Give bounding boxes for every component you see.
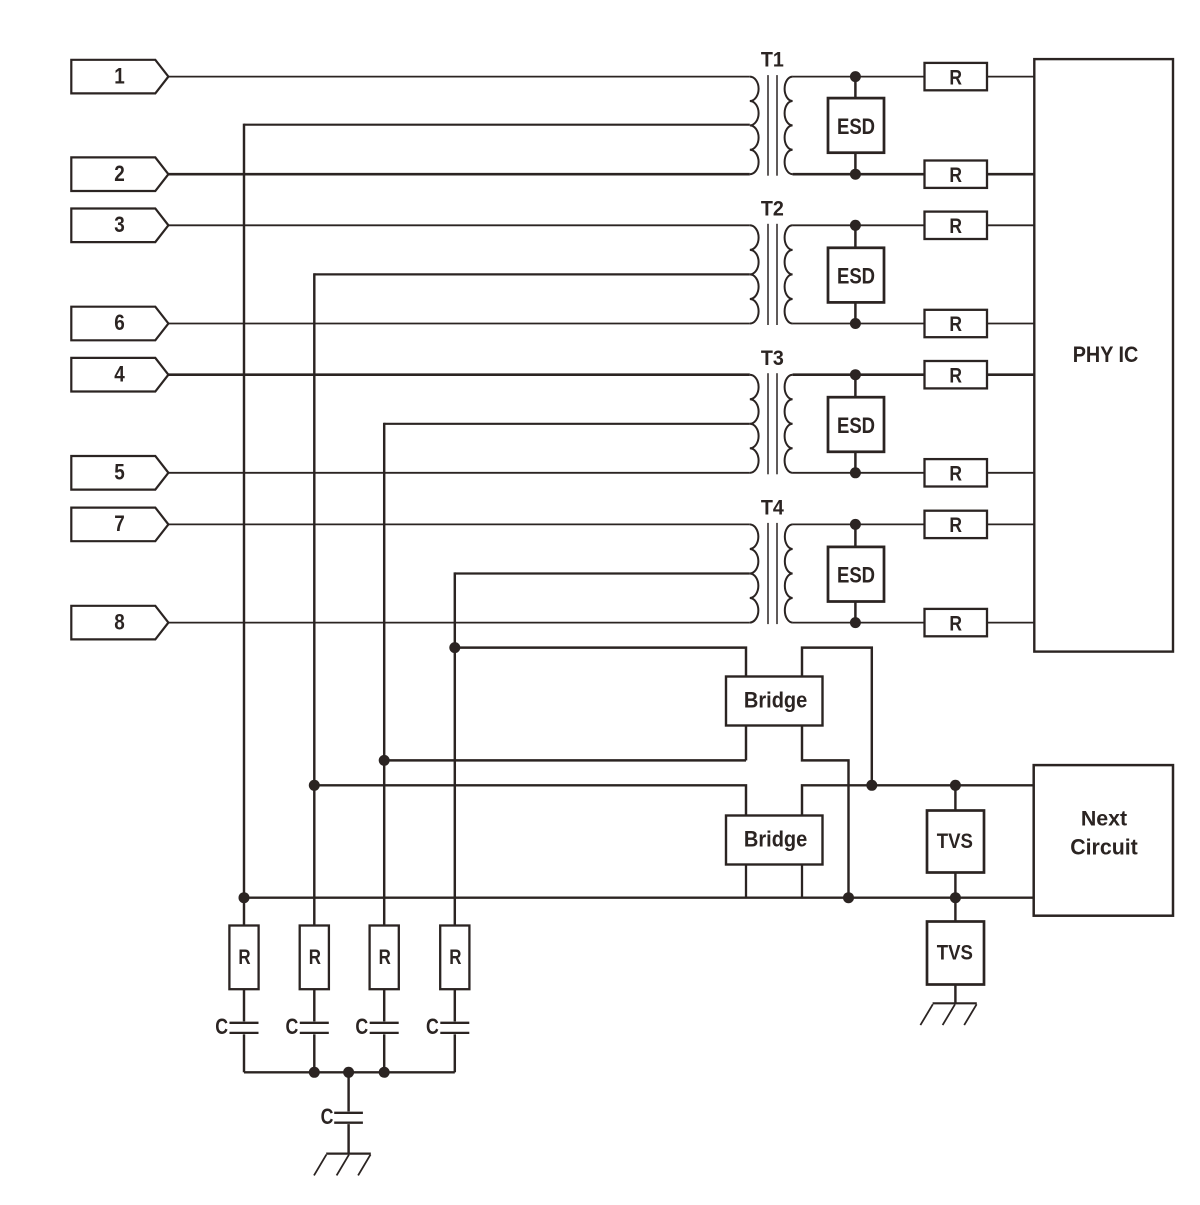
svg-text:Next: Next xyxy=(1081,807,1127,831)
junction dot TVS1 top xyxy=(950,780,961,791)
T4 secondary winding xyxy=(785,524,793,622)
wire pin 2 to transformer xyxy=(168,173,749,176)
svg-text:C: C xyxy=(321,1105,334,1129)
wire R to PHY (y=472.8) xyxy=(987,472,1034,474)
wire pin 4 to transformer xyxy=(168,373,749,376)
junction dot TVS1 bottom / TVS2 top xyxy=(950,892,961,903)
resistor R (series, y=374.7) xyxy=(925,361,988,388)
svg-text:ESD: ESD xyxy=(837,563,875,588)
svg-text:C: C xyxy=(215,1015,228,1039)
junction dot ESD bottom T1 xyxy=(850,169,861,180)
transformer T4 xyxy=(750,496,793,624)
wire pin 8 to transformer xyxy=(168,622,749,624)
wire T4 primary center tap xyxy=(455,572,750,574)
T4 primary winding xyxy=(750,524,759,622)
connector pin 3 xyxy=(71,209,168,243)
Next Circuit block xyxy=(1034,765,1173,916)
connector pin 6 xyxy=(71,307,168,341)
resistor R (termination 1) xyxy=(229,926,258,990)
ground (chassis) bottom xyxy=(314,1154,371,1176)
wire T2 secondary bottom to R xyxy=(793,323,925,325)
connector pin 7 xyxy=(71,508,168,542)
junction dot bus 3 xyxy=(379,1067,390,1078)
wire pin 5 to transformer xyxy=(168,472,749,474)
connector pin 2 xyxy=(71,157,168,191)
connector pin 4 xyxy=(71,358,168,392)
wire pin 7 to transformer xyxy=(168,523,749,525)
wire T3 primary center tap xyxy=(384,423,750,425)
svg-text:ESD: ESD xyxy=(837,264,875,289)
junction dot wire A on center-tap 4 xyxy=(449,642,460,653)
svg-text:R: R xyxy=(379,945,391,970)
TVS diode 1 xyxy=(927,811,984,873)
svg-text:TVS: TVS xyxy=(937,830,973,854)
wire center-tap vertical 4 xyxy=(454,572,456,925)
T4 core xyxy=(767,523,769,624)
svg-text:4: 4 xyxy=(114,362,125,387)
T3 secondary winding xyxy=(785,375,793,473)
connector pin 8 xyxy=(71,606,168,640)
svg-text:Circuit: Circuit xyxy=(1070,834,1138,859)
svg-text:C: C xyxy=(285,1015,298,1039)
bottom bus wire xyxy=(244,1071,455,1073)
wire R4 to C4 xyxy=(454,989,456,1021)
svg-text:2: 2 xyxy=(114,162,125,187)
svg-text:PHY IC: PHY IC xyxy=(1073,343,1139,367)
svg-text:5: 5 xyxy=(114,460,125,485)
svg-text:R: R xyxy=(949,513,962,537)
wire T4 secondary top to R xyxy=(793,523,925,525)
T2 primary winding xyxy=(750,225,759,323)
wire R to PHY (y=225.3) xyxy=(987,224,1034,226)
resistor R (series, y=174.2) xyxy=(925,161,988,188)
resistor R (series, y=622.6) xyxy=(925,609,988,636)
svg-text:C: C xyxy=(355,1015,368,1039)
connector pin 1 xyxy=(71,60,168,94)
Bridge 2 rectifier xyxy=(726,816,823,865)
svg-text:Bridge: Bridge xyxy=(744,827,808,852)
capacitor C (termination 4) xyxy=(426,1015,469,1039)
resistor R (series, y=323.5) xyxy=(925,310,988,337)
wire R to PHY (y=622.6) xyxy=(987,622,1034,624)
T2 core xyxy=(767,224,769,325)
resistor R (series, y=524.4) xyxy=(925,511,988,538)
svg-text:T3: T3 xyxy=(761,346,784,370)
ESD suppressor (T3 pair) xyxy=(828,375,884,473)
svg-text:R: R xyxy=(949,462,962,486)
connector pin 5 xyxy=(71,456,168,490)
ground (chassis) under TVS2 xyxy=(920,1003,976,1025)
PHY IC xyxy=(1034,59,1173,652)
resistor R (series, y=225.3) xyxy=(925,212,988,239)
T3 core xyxy=(767,373,769,474)
ESD suppressor (T4 pair) xyxy=(828,524,884,622)
T1 core xyxy=(767,75,769,176)
svg-text:T4: T4 xyxy=(761,496,785,520)
ESD suppressor (T2 pair) xyxy=(828,225,884,323)
junction dot ESD top T2 xyxy=(850,220,861,231)
wire center-tap vertical 1 xyxy=(243,124,245,926)
wire C4 to bus xyxy=(454,1034,456,1072)
wire Bridge1 bottom-right to wire D xyxy=(802,726,849,898)
capacitor C (termination 3) xyxy=(355,1015,398,1039)
transformer T1 xyxy=(750,48,793,176)
wire C: center-tap3 to Bridge1 bottom-left xyxy=(384,759,746,761)
transformer T2 xyxy=(750,197,793,325)
wire TVS2 bottom stub xyxy=(954,985,956,1004)
wire T1 primary center tap xyxy=(244,124,750,126)
svg-text:R: R xyxy=(949,66,962,90)
wire Bridge2 bottom-left to wire D xyxy=(745,865,747,898)
wire R to PHY (y=323.5) xyxy=(987,323,1034,325)
svg-text:ESD: ESD xyxy=(837,413,875,438)
junction dot bus 2 xyxy=(343,1067,354,1078)
svg-text:T1: T1 xyxy=(761,48,784,72)
wire T2 primary center tap xyxy=(314,273,750,275)
wire pin 6 to transformer xyxy=(168,323,749,325)
wire TVS2 top stub xyxy=(954,898,956,922)
wire T1 secondary top to R xyxy=(793,76,925,78)
wire Bridge1 bottom-left stub xyxy=(745,726,747,761)
svg-text:1: 1 xyxy=(114,64,125,89)
svg-text:R: R xyxy=(238,945,250,970)
wire C3 to bus xyxy=(383,1034,385,1072)
wire TVS1 top stub xyxy=(954,785,956,810)
wire C2 to bus xyxy=(313,1034,315,1072)
svg-text:7: 7 xyxy=(114,512,125,537)
wire T4 secondary bottom to R xyxy=(793,622,925,624)
resistor R (series, y=472.8) xyxy=(925,459,988,486)
junction dot ESD top T4 xyxy=(850,519,861,530)
T1 secondary winding xyxy=(785,77,793,175)
wire center-tap vertical 2 xyxy=(313,273,315,925)
wire T1 secondary bottom to R xyxy=(793,173,925,176)
svg-text:R: R xyxy=(949,612,962,636)
svg-text:R: R xyxy=(949,313,962,337)
wire R to PHY (y=374.7) xyxy=(987,373,1034,376)
capacitor C5 xyxy=(321,1105,363,1129)
svg-text:Bridge: Bridge xyxy=(744,688,808,713)
junction dot ESD bottom T4 xyxy=(850,617,861,628)
wire R2 to C2 xyxy=(313,989,315,1021)
T1 primary winding xyxy=(750,77,759,175)
svg-text:C: C xyxy=(426,1015,439,1039)
wire D: center-tap1 to Next Circuit xyxy=(244,896,1034,898)
wire T2 secondary top to R xyxy=(793,224,925,226)
junction dot wire B on center-tap 2 xyxy=(309,780,320,791)
wire R to PHY (y=174.2) xyxy=(987,173,1034,176)
wire C1 to bus xyxy=(243,1034,245,1072)
svg-text:3: 3 xyxy=(114,213,125,238)
junction dot ESD top T3 xyxy=(850,369,861,380)
svg-text:R: R xyxy=(449,945,461,970)
Bridge 1 rectifier xyxy=(726,677,823,726)
junction dot wire C on center-tap 3 xyxy=(379,755,390,766)
wire Bridge2 bottom-right to wire D xyxy=(801,865,803,898)
svg-text:TVS: TVS xyxy=(937,942,973,966)
wire TVS1 bottom stub xyxy=(954,873,956,898)
wire T3 secondary bottom to R xyxy=(793,472,925,474)
junction dot wire D on center-tap 1 xyxy=(239,892,250,903)
T3 primary winding xyxy=(750,375,759,473)
svg-text:6: 6 xyxy=(114,311,125,336)
wire bus to C5 xyxy=(347,1072,349,1111)
wire R3 to C3 xyxy=(383,989,385,1021)
svg-text:R: R xyxy=(949,364,962,388)
ESD suppressor (T1 pair) xyxy=(828,77,884,175)
junction dot Bridge1 path to wire D xyxy=(843,892,854,903)
wire R to PHY (y=524.4) xyxy=(987,523,1034,525)
transformer T3 xyxy=(750,346,793,474)
svg-text:R: R xyxy=(309,945,321,970)
capacitor C (termination 1) xyxy=(215,1015,258,1039)
wire T3 secondary top to R xyxy=(793,373,925,376)
TVS diode 2 xyxy=(927,922,984,985)
wire pin 3 to transformer xyxy=(168,224,749,226)
wire A: center-tap4 to Bridge1 top-left xyxy=(455,648,746,677)
wire pin 1 to transformer xyxy=(168,76,749,78)
svg-text:R: R xyxy=(949,163,962,187)
wire A: Bridge1 top-right to node xyxy=(802,648,872,786)
wire R1 to C1 xyxy=(243,989,245,1021)
resistor R (series, y=76.6) xyxy=(925,63,988,90)
junction dot wire A to wire B xyxy=(866,780,877,791)
wire B: Bridge2 top-right to Next Circuit xyxy=(802,785,1034,815)
wire R to PHY (y=76.6) xyxy=(987,76,1034,78)
resistor R (termination 2) xyxy=(300,926,329,990)
capacitor C (termination 2) xyxy=(285,1015,328,1039)
wire C5 to ground xyxy=(347,1124,349,1154)
svg-text:8: 8 xyxy=(114,610,125,635)
svg-text:T2: T2 xyxy=(761,197,784,221)
junction dot ESD top T1 xyxy=(850,71,861,82)
wire center-tap vertical 3 xyxy=(383,423,385,926)
wire B: center-tap2 to Bridge2 top-left xyxy=(314,785,746,815)
junction dot bus 1 xyxy=(309,1067,320,1078)
junction dot ESD bottom T2 xyxy=(850,318,861,329)
T2 secondary winding xyxy=(785,225,793,323)
junction dot ESD bottom T3 xyxy=(850,467,861,478)
svg-text:ESD: ESD xyxy=(837,114,875,139)
resistor R (termination 4) xyxy=(440,926,469,990)
svg-text:R: R xyxy=(949,214,962,238)
resistor R (termination 3) xyxy=(370,926,399,990)
